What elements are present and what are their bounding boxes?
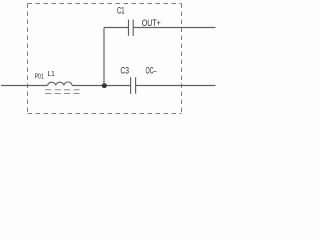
module enclosure (dashed box): top edge <box>28 3 182 5</box>
capacitor C3 <box>130 77 132 94</box>
junction dot <box>102 83 107 88</box>
wire: L1 to C3 through junction <box>72 85 130 87</box>
wire: riser to C1 <box>104 27 129 29</box>
module enclosure (dashed box): right edge <box>181 4 183 114</box>
module enclosure (dashed box): bottom edge <box>28 113 182 115</box>
svg-text:C3: C3 <box>120 66 129 76</box>
inductor L1 <box>48 82 72 86</box>
svg-text:C1: C1 <box>117 6 125 16</box>
svg-text:P01: P01 <box>35 72 44 81</box>
capacitor C1 <box>128 20 130 36</box>
svg-text:OC–: OC– <box>146 66 157 76</box>
inductor L1 core (dashed lines) <box>45 89 79 91</box>
module enclosure (dashed box): left edge <box>27 4 29 114</box>
wire: vertical riser <box>103 28 105 86</box>
svg-text:L1: L1 <box>48 69 55 78</box>
wire: C3 to OC- net <box>136 85 216 87</box>
wire: C1 to OUT+ net <box>133 27 215 29</box>
wire: input segment to L1 <box>1 85 48 87</box>
svg-text:OUT+: OUT+ <box>142 18 161 28</box>
